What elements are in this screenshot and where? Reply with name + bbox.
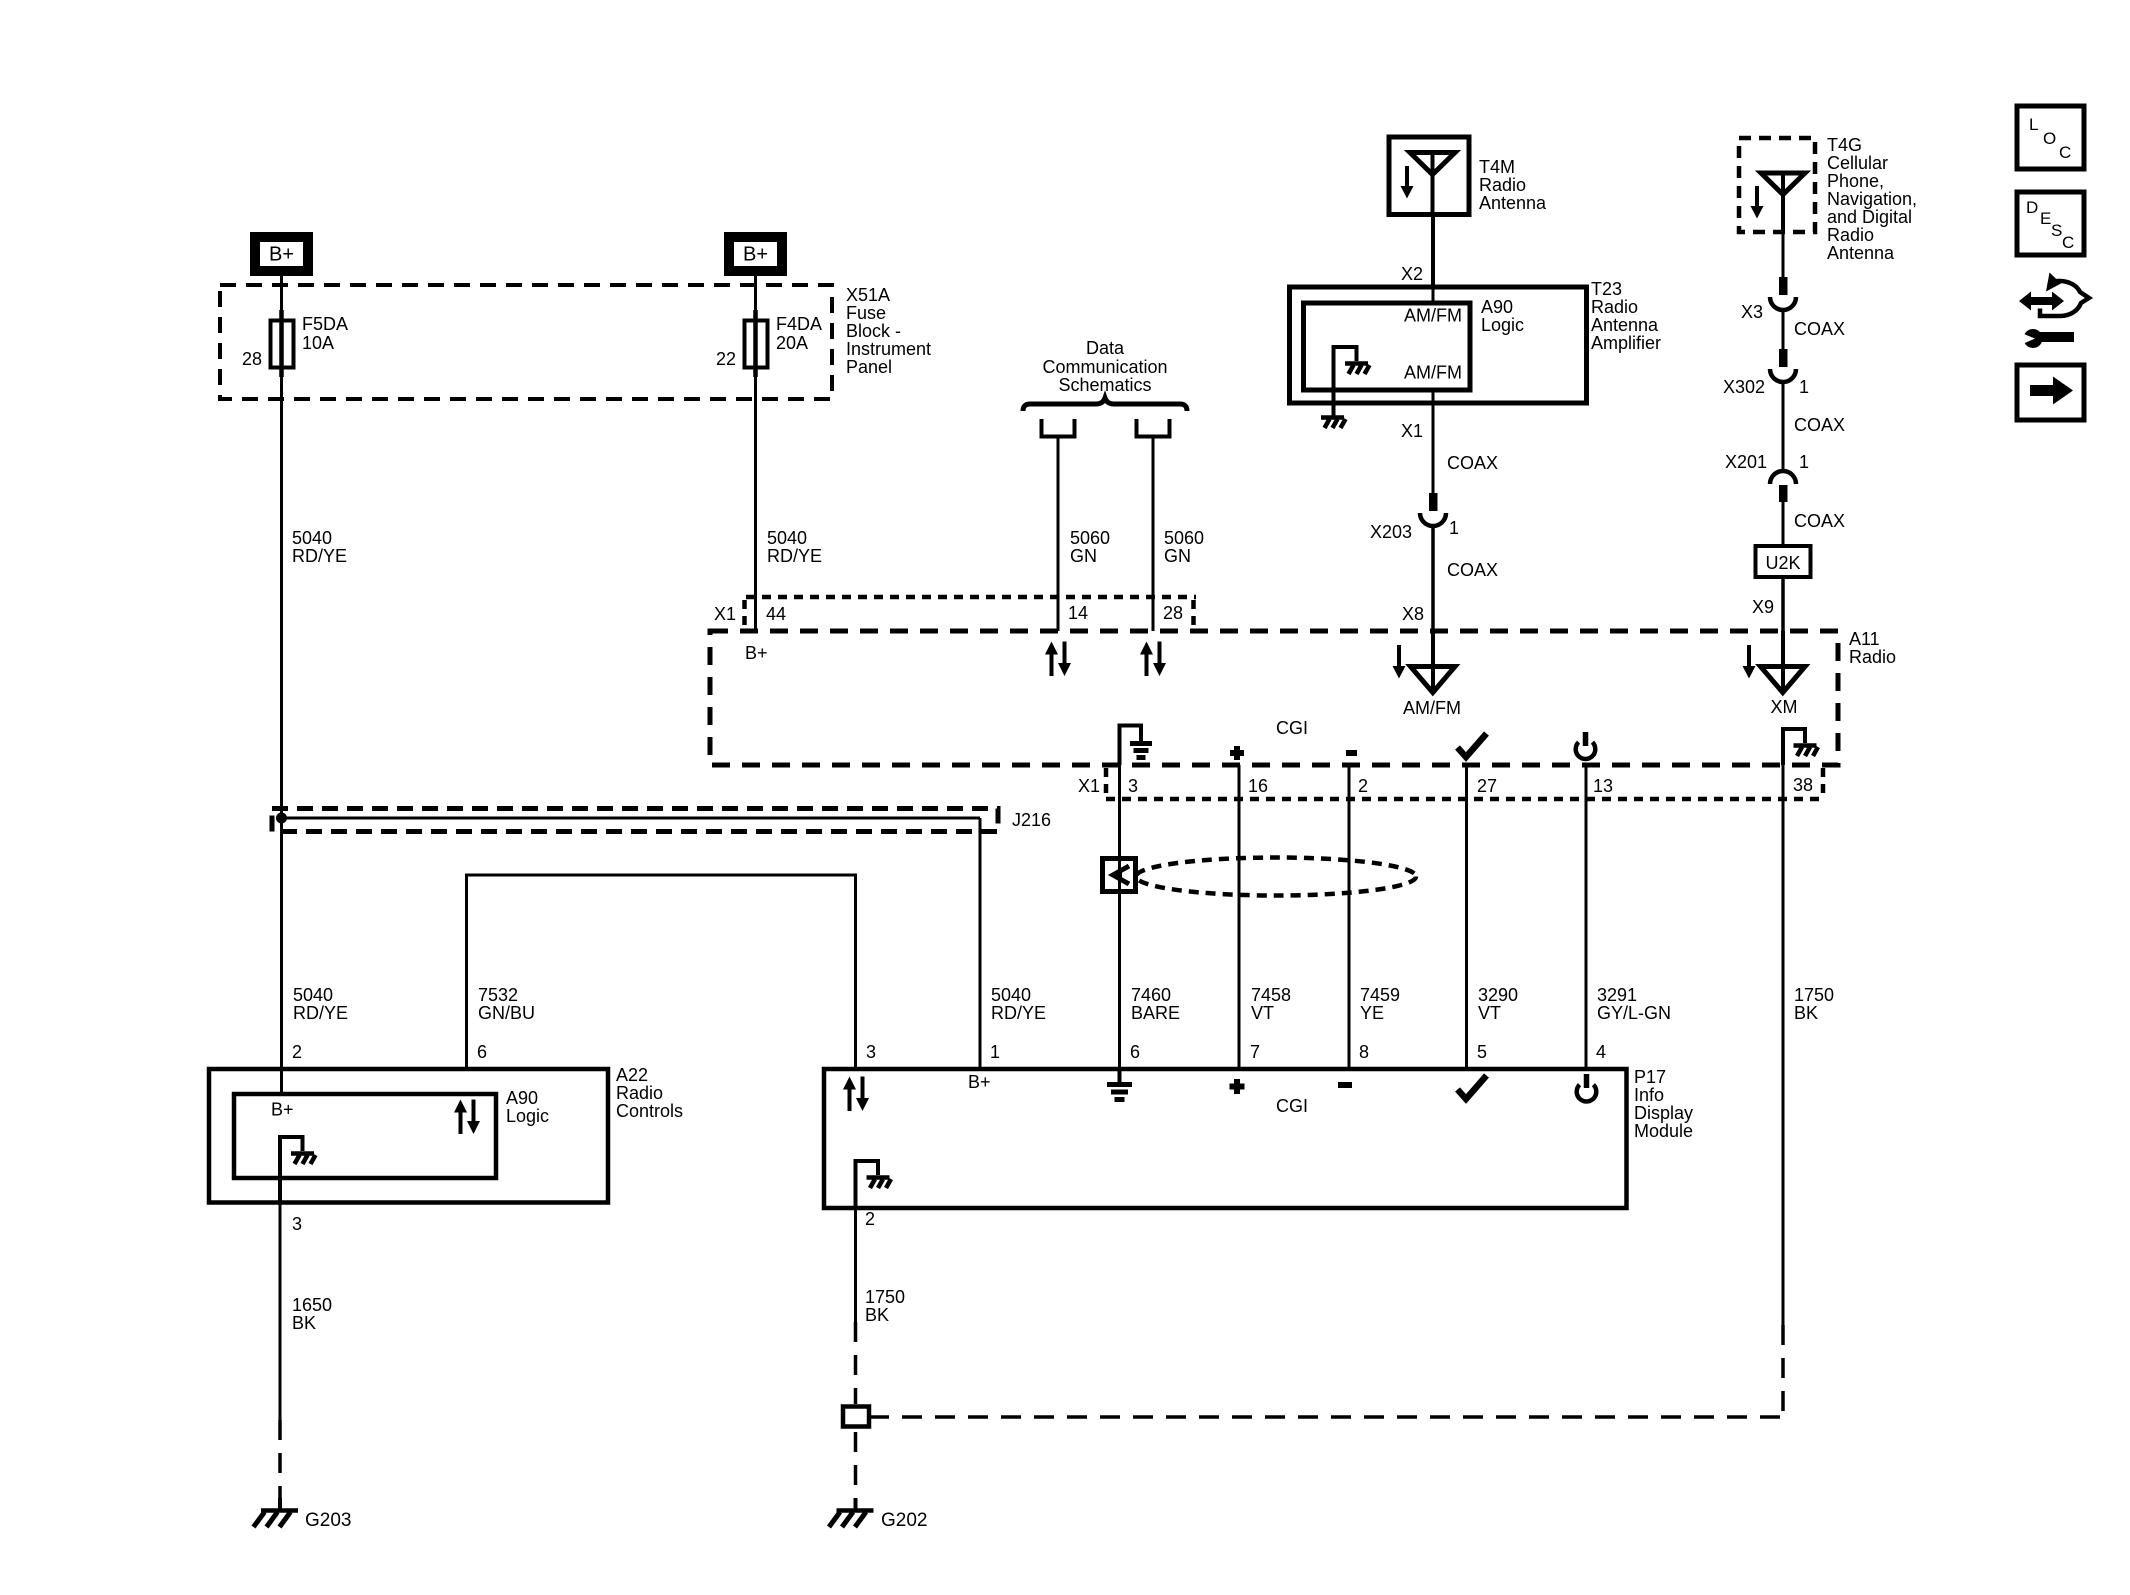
svg-text:A90: A90 xyxy=(1481,297,1513,317)
label X51A Fuse Block - Instrument Panel xyxy=(846,285,931,377)
legend LOC box xyxy=(2017,106,2084,169)
wire X8 to AM/FM antenna xyxy=(1431,631,1435,691)
label 5040 RD/YE (J216 to P17) xyxy=(991,985,1046,1023)
svg-text:L: L xyxy=(2029,115,2038,134)
label COAX (below X203) xyxy=(1447,560,1498,580)
svg-text:S: S xyxy=(2051,221,2062,240)
splice box connector xyxy=(843,1407,869,1427)
svg-text:Data: Data xyxy=(1086,338,1125,358)
pin B+ (P17) xyxy=(968,1072,991,1092)
ground jog wire (A22) xyxy=(280,1137,303,1203)
wire J216 horizontal xyxy=(282,817,981,820)
svg-text:X1: X1 xyxy=(714,604,736,624)
double arrow (A11 pin 28) xyxy=(1140,642,1166,677)
pin 44 xyxy=(766,604,786,624)
svg-text:5060: 5060 xyxy=(1070,528,1110,548)
wire 5060 GN left xyxy=(1057,438,1060,631)
dashed wire 1750 BK right lower xyxy=(1781,1325,1785,1417)
value label F4DA 20A xyxy=(776,314,822,353)
wire 3290 VT (A11 X1-27 to P17 pin 5) xyxy=(1465,765,1468,1069)
label T4G Cellular Phone, Navigation, and Digital Radio Antenna xyxy=(1827,135,1917,263)
wire 5040 RD/YE right (fuse F4DA to A11 X1-44) xyxy=(754,377,757,631)
svg-text:5040: 5040 xyxy=(991,985,1031,1005)
pin 2 (A11) xyxy=(1358,776,1368,796)
svg-text:Controls: Controls xyxy=(616,1101,683,1121)
svg-text:4: 4 xyxy=(1596,1042,1606,1062)
pin 6 (P17) xyxy=(1130,1042,1140,1062)
arrow (AM/FM) xyxy=(1393,645,1406,679)
antenna T4G dashed box xyxy=(1739,138,1815,232)
ground jog wire (A11 X1-38) xyxy=(1783,729,1805,765)
svg-text:X9: X9 xyxy=(1752,597,1774,617)
chassis ground (A11 X1-38) xyxy=(1794,746,1819,757)
svg-text:1: 1 xyxy=(990,1042,1000,1062)
pin 3 (A22 bottom) xyxy=(292,1214,302,1234)
fuse F5DA xyxy=(271,321,294,368)
twisted pair dashed ellipse xyxy=(1136,858,1416,896)
svg-text:3: 3 xyxy=(1128,776,1138,796)
svg-text:T4M: T4M xyxy=(1479,157,1515,177)
svg-text:B+: B+ xyxy=(968,1072,991,1092)
label CGI (A11) xyxy=(1276,718,1308,738)
label XM xyxy=(1771,697,1798,717)
svg-text:16: 16 xyxy=(1248,776,1268,796)
label T4M Radio Antenna xyxy=(1479,157,1547,213)
svg-text:C: C xyxy=(2059,143,2071,162)
wire T4M to T23 X2 xyxy=(1431,215,1435,288)
label A22 Radio Controls xyxy=(616,1065,683,1121)
label X302 xyxy=(1723,377,1765,397)
pin 38 (A11) xyxy=(1793,775,1813,795)
svg-text:Info: Info xyxy=(1634,1085,1664,1105)
svg-text:7: 7 xyxy=(1250,1042,1260,1062)
svg-text:7458: 7458 xyxy=(1251,985,1291,1005)
svg-text:Instrument: Instrument xyxy=(846,339,931,359)
svg-text:F4DA: F4DA xyxy=(776,314,822,334)
wire U2K to A11 X9 xyxy=(1781,577,1785,631)
svg-text:Communication: Communication xyxy=(1042,357,1167,377)
label 1750 BK (right) xyxy=(1794,985,1834,1023)
connector fork left (data wire 1) xyxy=(1040,419,1077,437)
antenna T4M box xyxy=(1389,137,1469,215)
svg-text:B+: B+ xyxy=(269,244,294,266)
pin 2 (P17 bottom) xyxy=(865,1209,875,1229)
minus icon (A11 X1-2) xyxy=(1346,750,1357,756)
wire 7458 VT (A11 X1-16 to P17 pin 7) xyxy=(1238,765,1241,1069)
radio controls A22 box xyxy=(209,1069,608,1203)
node X9 xyxy=(1752,597,1774,617)
svg-text:28: 28 xyxy=(242,349,262,369)
svg-text:AM/FM: AM/FM xyxy=(1404,306,1462,326)
check icon (A11 X1-27) xyxy=(1458,734,1487,758)
connector X1 bottom strip of A11 xyxy=(1106,768,1823,799)
power icon (P17 pin 4) xyxy=(1577,1074,1597,1101)
pin AM/FM (A90 top) xyxy=(1404,306,1462,326)
svg-text:Antenna: Antenna xyxy=(1479,193,1547,213)
svg-text:U2K: U2K xyxy=(1765,553,1800,573)
pin 6 (A22) xyxy=(477,1042,487,1062)
svg-text:27: 27 xyxy=(1477,776,1497,796)
wire B+1 to fuse F5DA xyxy=(280,276,283,314)
power icon (A11 X1-13) xyxy=(1576,732,1596,759)
wire 7460 BARE (A11 X1-3 to P17 pin 6) xyxy=(1118,765,1121,1069)
connector X302 xyxy=(1770,349,1796,382)
pin 7 (P17) xyxy=(1250,1042,1260,1062)
ground G202 xyxy=(829,1498,874,1527)
svg-text:RD/YE: RD/YE xyxy=(767,546,822,566)
pin 14 xyxy=(1068,603,1088,623)
label 7532 GN/BU xyxy=(478,985,535,1023)
fuse F4DA xyxy=(745,321,768,368)
wire X3 to X302 xyxy=(1782,308,1785,350)
wire 1650 BK xyxy=(279,1203,282,1420)
svg-text:RD/YE: RD/YE xyxy=(991,1003,1046,1023)
svg-text:10A: 10A xyxy=(302,333,334,353)
svg-text:5: 5 xyxy=(1477,1042,1487,1062)
svg-text:BK: BK xyxy=(292,1313,316,1333)
svg-text:X1: X1 xyxy=(1078,776,1100,796)
pin 2 (A22) xyxy=(292,1042,302,1062)
pin 22 xyxy=(716,349,736,369)
arrow (signal down) in T4M xyxy=(1401,166,1414,199)
chassis ground (in A90) xyxy=(1345,364,1370,375)
svg-text:1: 1 xyxy=(1449,518,1459,538)
pin 4 (P17) xyxy=(1596,1042,1606,1062)
svg-text:X8: X8 xyxy=(1402,604,1424,624)
svg-text:GN: GN xyxy=(1164,546,1191,566)
svg-text:44: 44 xyxy=(766,604,786,624)
pin 16 (A11) xyxy=(1248,776,1268,796)
svg-text:COAX: COAX xyxy=(1447,560,1498,580)
label X1 (top strip) xyxy=(714,604,736,624)
label COAX (X302) xyxy=(1794,415,1845,435)
junction J216 dot xyxy=(276,813,287,824)
antenna XM symbol (in A11) xyxy=(1761,667,1806,693)
label 5060 GN left xyxy=(1070,528,1110,566)
svg-text:G202: G202 xyxy=(881,1510,927,1531)
svg-text:1750: 1750 xyxy=(865,1287,905,1307)
legend arrow box xyxy=(2017,365,2084,420)
svg-text:GN: GN xyxy=(1070,546,1097,566)
antenna AM/FM symbol (in A11) xyxy=(1411,667,1456,693)
svg-text:1650: 1650 xyxy=(292,1295,332,1315)
svg-text:COAX: COAX xyxy=(1794,319,1845,339)
wire 7532 GN/BU (A22 pin 6 to P17 pin 3) xyxy=(467,875,856,1069)
svg-text:7460: 7460 xyxy=(1131,985,1171,1005)
arrow (XM) xyxy=(1743,645,1756,679)
svg-text:6: 6 xyxy=(477,1042,487,1062)
svg-text:AM/FM: AM/FM xyxy=(1404,363,1462,383)
plus icon (P17 pin 7) xyxy=(1230,1079,1245,1094)
double arrow (A22 pin 6) xyxy=(454,1100,480,1135)
earth ground (A11 X1-3) xyxy=(1130,744,1152,758)
svg-text:1: 1 xyxy=(1799,377,1809,397)
svg-text:A90: A90 xyxy=(506,1088,538,1108)
svg-text:7459: 7459 xyxy=(1360,985,1400,1005)
double arrow (A11 pin 14) xyxy=(1045,642,1071,677)
svg-text:5040: 5040 xyxy=(767,528,807,548)
svg-text:Radio: Radio xyxy=(1827,225,1874,245)
pin 5 (P17) xyxy=(1477,1042,1487,1062)
svg-text:1750: 1750 xyxy=(1794,985,1834,1005)
connector X203 xyxy=(1420,493,1446,526)
amplifier T23 box xyxy=(1290,287,1587,403)
label P17 Info Display Module xyxy=(1634,1067,1693,1141)
svg-text:BK: BK xyxy=(865,1305,889,1325)
wire X201 to U2K xyxy=(1782,500,1785,546)
svg-text:3291: 3291 xyxy=(1597,985,1637,1005)
label 5060 GN right xyxy=(1164,528,1204,566)
label A11 Radio xyxy=(1849,629,1896,667)
svg-text:X2: X2 xyxy=(1401,264,1423,284)
dashed wire splice to 1750 BK right xyxy=(869,1415,1783,1419)
label 1650 BK xyxy=(292,1295,332,1333)
wire A90 X1 down xyxy=(1432,390,1435,494)
svg-text:Radio: Radio xyxy=(1479,175,1526,195)
wire 3291 GY/L-GN (A11 X1-13 to P17 pin 4) xyxy=(1585,765,1588,1069)
svg-text:E: E xyxy=(2040,209,2051,228)
svg-text:8: 8 xyxy=(1359,1042,1369,1062)
svg-text:GY/L-GN: GY/L-GN xyxy=(1597,1003,1671,1023)
brace xyxy=(1023,398,1187,411)
svg-text:Radio: Radio xyxy=(1591,297,1638,317)
pin 1 (P17) xyxy=(990,1042,1000,1062)
svg-text:2: 2 xyxy=(292,1042,302,1062)
wire X203 to A11 X8 xyxy=(1431,524,1435,631)
label X201 xyxy=(1725,452,1767,472)
logic module A90 box (in T23) xyxy=(1304,303,1471,390)
svg-text:COAX: COAX xyxy=(1794,511,1845,531)
wire X302 to X201 xyxy=(1782,380,1785,471)
svg-text:BARE: BARE xyxy=(1131,1003,1180,1023)
svg-text:BK: BK xyxy=(1794,1003,1818,1023)
node X8 xyxy=(1402,604,1424,624)
svg-text:Block -: Block - xyxy=(846,321,901,341)
wire B+2 to fuse F4DA xyxy=(754,276,757,314)
svg-text:and Digital: and Digital xyxy=(1827,207,1912,227)
svg-text:YE: YE xyxy=(1360,1003,1384,1023)
svg-text:G203: G203 xyxy=(305,1510,351,1531)
pin 1 (X203) xyxy=(1449,518,1459,538)
label 7459 YE xyxy=(1360,985,1400,1023)
svg-text:GN/BU: GN/BU xyxy=(478,1003,535,1023)
legend DESC box xyxy=(2017,192,2084,255)
svg-text:Logic: Logic xyxy=(1481,315,1524,335)
label G202 xyxy=(881,1510,927,1531)
label Data Communication Schematics xyxy=(1042,338,1167,395)
svg-text:B+: B+ xyxy=(271,1100,294,1120)
svg-text:C: C xyxy=(2062,233,2074,252)
svg-text:Antenna: Antenna xyxy=(1827,243,1895,263)
label 7458 VT xyxy=(1251,985,1291,1023)
svg-text:CGI: CGI xyxy=(1276,1096,1308,1116)
svg-text:J216: J216 xyxy=(1012,810,1051,830)
svg-text:Logic: Logic xyxy=(506,1106,549,1126)
svg-text:Display: Display xyxy=(1634,1103,1693,1123)
label 3290 VT xyxy=(1478,985,1518,1023)
twisted pair box arrow xyxy=(1103,859,1136,892)
label COAX (X3) xyxy=(1794,319,1845,339)
pin 28 (A11) xyxy=(1163,603,1183,623)
svg-text:Radio: Radio xyxy=(616,1083,663,1103)
label A90 Logic (A22) xyxy=(506,1088,549,1126)
svg-text:X51A: X51A xyxy=(846,285,890,305)
check icon (P17 pin 5) xyxy=(1458,1076,1487,1100)
svg-text:Amplifier: Amplifier xyxy=(1591,333,1661,353)
pin 1 (X302) xyxy=(1799,377,1809,397)
svg-text:2: 2 xyxy=(865,1209,875,1229)
svg-text:X3: X3 xyxy=(1741,302,1763,322)
svg-text:Navigation,: Navigation, xyxy=(1827,189,1917,209)
label COAX (X201) xyxy=(1794,511,1845,531)
label X3 xyxy=(1741,302,1763,322)
svg-text:D: D xyxy=(2026,198,2038,217)
label A90 Logic (T23) xyxy=(1481,297,1524,335)
pin AM/FM (A90 bottom) xyxy=(1404,363,1462,383)
option U2K box xyxy=(1756,546,1811,577)
svg-text:Fuse: Fuse xyxy=(846,303,886,323)
svg-text:5040: 5040 xyxy=(292,528,332,548)
svg-text:X203: X203 xyxy=(1370,522,1412,542)
svg-text:22: 22 xyxy=(716,349,736,369)
svg-text:1: 1 xyxy=(1799,452,1809,472)
svg-text:7532: 7532 xyxy=(478,985,518,1005)
dashed wire to G203 xyxy=(278,1420,282,1502)
label J216 xyxy=(1012,810,1051,830)
chassis ground (in P17) xyxy=(867,1178,892,1189)
minus icon (P17 pin 8) xyxy=(1338,1082,1352,1088)
wire 1750 BK (A11 X1-38 down) xyxy=(1782,765,1785,1325)
label AM/FM xyxy=(1403,698,1461,718)
svg-text:O: O xyxy=(2043,129,2056,148)
pin B+ (A11 44) xyxy=(745,643,768,663)
B+ terminal 1 xyxy=(255,237,308,271)
wire T4G to X3 xyxy=(1782,232,1785,278)
svg-text:5060: 5060 xyxy=(1164,528,1204,548)
label X203 xyxy=(1370,522,1412,542)
svg-text:RD/YE: RD/YE xyxy=(292,546,347,566)
dashed wire P17 pin2 to splice box xyxy=(854,1322,858,1404)
label 1750 BK (P17) xyxy=(865,1287,905,1325)
svg-text:XM: XM xyxy=(1771,697,1798,717)
arrow (signal down) in T4G xyxy=(1751,186,1764,219)
fuse block X51A dashed box xyxy=(220,285,832,399)
wire J216 down to P17 pin 1 xyxy=(979,818,982,1069)
svg-text:Module: Module xyxy=(1634,1121,1693,1141)
svg-text:X302: X302 xyxy=(1723,377,1765,397)
label 5040 RD/YE right upper xyxy=(767,528,822,566)
svg-text:3290: 3290 xyxy=(1478,985,1518,1005)
svg-text:6: 6 xyxy=(1130,1042,1140,1062)
svg-text:P17: P17 xyxy=(1634,1067,1666,1087)
svg-text:Panel: Panel xyxy=(846,357,892,377)
fuse F5DA element wire xyxy=(279,310,284,377)
dashed wire splice to G202 xyxy=(854,1432,858,1502)
wire 5040 RD/YE left (fuse F5DA to J216 to A22) xyxy=(280,377,283,1094)
value label F5DA 10A xyxy=(302,314,348,353)
connector X1 top strip of A11 xyxy=(745,597,1197,629)
antenna T4M symbol xyxy=(1410,153,1455,215)
legend compare icon (arrows and wrench) xyxy=(2014,273,2089,349)
connector fork right (data wire 2) xyxy=(1135,419,1172,437)
node X2 xyxy=(1401,264,1423,284)
svg-text:Phone,: Phone, xyxy=(1827,171,1884,191)
svg-text:F5DA: F5DA xyxy=(302,314,348,334)
svg-text:Cellular: Cellular xyxy=(1827,153,1888,173)
chassis ground below T23 xyxy=(1321,418,1346,429)
chassis ground (in A90 of A22) xyxy=(291,1154,316,1165)
svg-text:COAX: COAX xyxy=(1794,415,1845,435)
svg-text:AM/FM: AM/FM xyxy=(1403,698,1461,718)
svg-text:RD/YE: RD/YE xyxy=(293,1003,348,1023)
pin 8 (P17) xyxy=(1359,1042,1369,1062)
label 5040 RD/YE (A22 branch) xyxy=(293,985,348,1023)
svg-text:VT: VT xyxy=(1478,1003,1501,1023)
pin 3 (P17) xyxy=(866,1042,876,1062)
svg-text:20A: 20A xyxy=(776,333,808,353)
label T23 Radio Antenna Amplifier xyxy=(1591,279,1661,353)
ground jog wire in A90 xyxy=(1334,347,1357,416)
info display module P17 box xyxy=(824,1069,1627,1208)
svg-text:T23: T23 xyxy=(1591,279,1622,299)
label CGI (P17) xyxy=(1276,1096,1308,1116)
pin 1 (X201) xyxy=(1799,452,1809,472)
pin 27 (A11) xyxy=(1477,776,1497,796)
svg-text:3: 3 xyxy=(292,1214,302,1234)
svg-text:A11: A11 xyxy=(1849,629,1880,649)
svg-text:5040: 5040 xyxy=(293,985,333,1005)
svg-text:B+: B+ xyxy=(743,244,768,266)
svg-text:14: 14 xyxy=(1068,603,1088,623)
svg-text:3: 3 xyxy=(866,1042,876,1062)
antenna T4G symbol xyxy=(1761,173,1805,232)
label G203 xyxy=(305,1510,351,1531)
label COAX (above X203) xyxy=(1447,453,1498,473)
ground G203 xyxy=(254,1498,299,1527)
wire 1750 BK (P17 pin 2) xyxy=(854,1208,857,1322)
svg-text:T4G: T4G xyxy=(1827,135,1862,155)
svg-text:Antenna: Antenna xyxy=(1591,315,1659,335)
label 3291 GY/L-GN xyxy=(1597,985,1671,1023)
radio A11 dashed box xyxy=(710,631,1838,765)
svg-text:Radio: Radio xyxy=(1849,647,1896,667)
ground jog wire (A11 X1-3) xyxy=(1120,726,1142,766)
fuse F4DA element wire xyxy=(753,310,758,377)
pin 13 (A11) xyxy=(1593,776,1613,796)
label 7460 BARE xyxy=(1131,985,1180,1023)
label 5040 RD/YE left upper xyxy=(292,528,347,566)
pin 3 (A11) xyxy=(1128,776,1138,796)
svg-text:A22: A22 xyxy=(616,1065,648,1085)
svg-text:X1: X1 xyxy=(1401,421,1423,441)
svg-text:13: 13 xyxy=(1593,776,1613,796)
pin 28 xyxy=(242,349,262,369)
svg-text:VT: VT xyxy=(1251,1003,1274,1023)
B+ terminal 2 xyxy=(729,237,782,271)
svg-text:X201: X201 xyxy=(1725,452,1767,472)
svg-text:2: 2 xyxy=(1358,776,1368,796)
earth ground (P17 pin 6) xyxy=(1107,1069,1132,1100)
connector X201 xyxy=(1770,471,1796,502)
svg-text:CGI: CGI xyxy=(1276,718,1308,738)
splice J216 dashed outline xyxy=(272,809,998,832)
svg-text:28: 28 xyxy=(1163,603,1183,623)
svg-text:38: 38 xyxy=(1793,775,1813,795)
pin B+ (A22) xyxy=(271,1100,294,1120)
wire 7459 YE (A11 X1-2 to P17 pin 8) xyxy=(1348,765,1351,1069)
logic module A90 box (in A22) xyxy=(234,1094,496,1178)
label X1 (bottom strip) xyxy=(1078,776,1100,796)
